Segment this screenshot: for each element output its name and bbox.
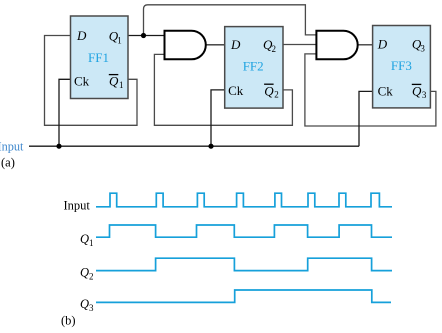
svg-text:1: 1 — [119, 80, 124, 90]
waveform: Q2 — [96, 258, 392, 270]
svg-text:1: 1 — [117, 35, 122, 45]
wire: AND2 output to D3 — [358, 44, 373, 46]
AND gate G1 — [165, 31, 206, 60]
wire: Q2 output to AND2 middle input — [283, 44, 316, 46]
svg-text:FF3: FF3 — [391, 58, 412, 73]
svg-text:Input: Input — [0, 139, 24, 153]
svg-text:1: 1 — [89, 238, 94, 248]
svg-text:2: 2 — [89, 271, 94, 281]
svg-text:Input: Input — [64, 198, 91, 212]
svg-text:D: D — [230, 37, 241, 52]
node: junction dot input/Ck1 — [56, 144, 61, 149]
svg-text:Q: Q — [80, 232, 89, 246]
svg-text:FF1: FF1 — [88, 50, 109, 65]
svg-text:2: 2 — [272, 44, 277, 54]
label: Q1 (b) — [80, 232, 94, 248]
svg-text:Q: Q — [109, 74, 119, 89]
flip-flop FF2 — [225, 27, 283, 109]
wire: Q1 output to AND1 top input — [128, 35, 165, 37]
svg-text:D: D — [377, 37, 388, 52]
svg-text:Q: Q — [412, 84, 422, 99]
waveform: Input — [96, 193, 392, 207]
AND gate G2 — [316, 31, 357, 60]
svg-text:Q: Q — [80, 297, 89, 311]
svg-text:3: 3 — [422, 90, 427, 100]
svg-text:3: 3 — [89, 303, 94, 313]
svg-text:Ck: Ck — [378, 84, 394, 99]
svg-text:3: 3 — [420, 44, 425, 54]
svg-text:2: 2 — [274, 90, 279, 100]
label: Q2 (b) — [80, 265, 94, 281]
wire: top feedback Q1 to AND2 top input — [144, 5, 317, 36]
wire: Ck3 to input line — [359, 91, 373, 146]
flip-flop FF1 — [71, 16, 129, 99]
svg-text:Q: Q — [80, 265, 89, 279]
wire: input line — [29, 145, 359, 147]
svg-text:Q: Q — [264, 83, 274, 98]
svg-text:D: D — [76, 28, 87, 43]
wire: Qbar3 to AND2 bottom input — [305, 54, 436, 126]
wire: Ck1 to input line — [59, 79, 71, 146]
svg-text:FF2: FF2 — [243, 58, 264, 73]
node: junction dot input/Ck2 — [208, 144, 213, 149]
svg-text:Ck: Ck — [74, 73, 90, 88]
wire: D1 feedback loop (Qbar1 to D1) — [45, 36, 138, 126]
waveform: Q1 — [96, 225, 392, 237]
flip-flop FF3 — [373, 26, 431, 108]
wire: Qbar2 to AND1 bottom input — [154, 54, 292, 125]
wire: AND1 output to D2 — [206, 44, 225, 46]
svg-text:(b): (b) — [61, 314, 76, 328]
label: Q3 (b) — [80, 297, 94, 313]
svg-text:(a): (a) — [1, 156, 15, 170]
svg-text:Ck: Ck — [228, 83, 244, 98]
waveform: Q3 — [96, 290, 391, 302]
node: junction dot on Q1 line — [141, 33, 146, 38]
wire: Ck2 to input line — [211, 90, 225, 146]
